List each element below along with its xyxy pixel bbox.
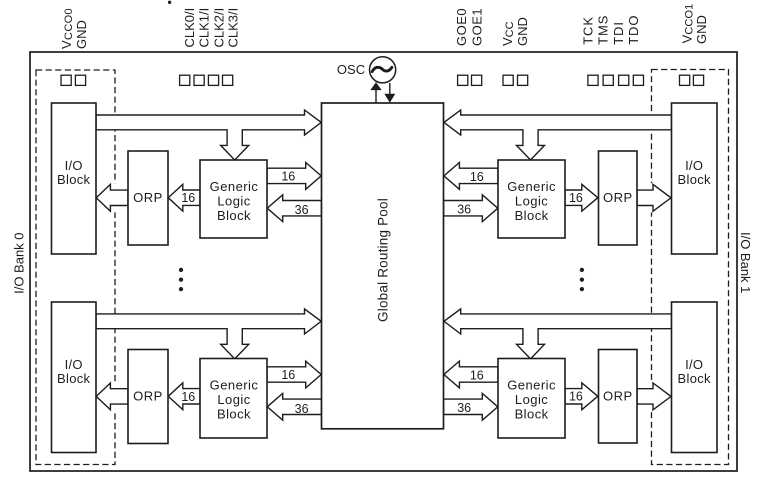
svg-text:16: 16	[181, 390, 195, 404]
svg-text:Block: Block	[57, 172, 90, 187]
svg-text:ORP: ORP	[603, 190, 633, 205]
svg-text:16: 16	[569, 390, 583, 404]
svg-text:Block: Block	[515, 208, 549, 223]
svg-text:Logic: Logic	[217, 392, 250, 407]
svg-text:TMS: TMS	[596, 15, 611, 45]
svg-text:36: 36	[295, 402, 309, 416]
svg-text:GND: GND	[694, 15, 709, 44]
svg-text:36: 36	[457, 203, 471, 217]
svg-text:Block: Block	[678, 172, 711, 187]
svg-text:Block: Block	[678, 371, 711, 386]
svg-text:CLK0/I: CLK0/I	[182, 8, 197, 48]
svg-text:Logic: Logic	[515, 392, 548, 407]
svg-text:36: 36	[457, 401, 471, 415]
svg-text:OSC: OSC	[337, 62, 365, 77]
svg-text:GND: GND	[515, 17, 530, 46]
svg-text:Block: Block	[217, 406, 251, 421]
svg-text:Logic: Logic	[217, 193, 250, 208]
svg-text:16: 16	[569, 191, 583, 205]
svg-text:ORP: ORP	[603, 389, 633, 404]
svg-text:I/O: I/O	[685, 158, 703, 173]
svg-text:Generic: Generic	[507, 179, 556, 194]
svg-text:GND: GND	[74, 20, 89, 49]
svg-text:16: 16	[181, 191, 195, 205]
svg-text:TDI: TDI	[611, 21, 626, 45]
svg-text:CLK1/I: CLK1/I	[197, 8, 212, 48]
svg-text:Block: Block	[217, 208, 251, 223]
svg-text:ORP: ORP	[133, 389, 163, 404]
svg-text:CLK2/I: CLK2/I	[211, 8, 226, 48]
svg-text:36: 36	[295, 203, 309, 217]
svg-text:I/O: I/O	[685, 357, 703, 372]
svg-text:I/O Bank 1: I/O Bank 1	[738, 232, 753, 293]
svg-text:I/O Bank 0: I/O Bank 0	[11, 232, 26, 293]
svg-text:GOE1: GOE1	[470, 8, 485, 46]
svg-text:Block: Block	[515, 406, 549, 421]
svg-text:16: 16	[470, 170, 484, 184]
svg-text:Global Routing Pool: Global Routing Pool	[376, 198, 391, 322]
svg-text:TCK: TCK	[581, 16, 596, 45]
svg-text:GOE0: GOE0	[454, 8, 469, 46]
svg-text:Block: Block	[57, 371, 90, 386]
svg-text:ORP: ORP	[133, 190, 163, 205]
svg-text:Generic: Generic	[507, 378, 556, 393]
svg-text:TDO: TDO	[626, 15, 641, 45]
svg-text:CLK3/I: CLK3/I	[226, 8, 241, 48]
svg-text:16: 16	[281, 170, 295, 184]
svg-text:Generic: Generic	[210, 179, 259, 194]
svg-text:16: 16	[281, 368, 295, 382]
svg-text:16: 16	[470, 369, 484, 383]
svg-text:Logic: Logic	[515, 193, 548, 208]
svg-text:I/O: I/O	[65, 158, 83, 173]
svg-text:Generic: Generic	[210, 378, 259, 393]
svg-text:I/O: I/O	[65, 357, 83, 372]
